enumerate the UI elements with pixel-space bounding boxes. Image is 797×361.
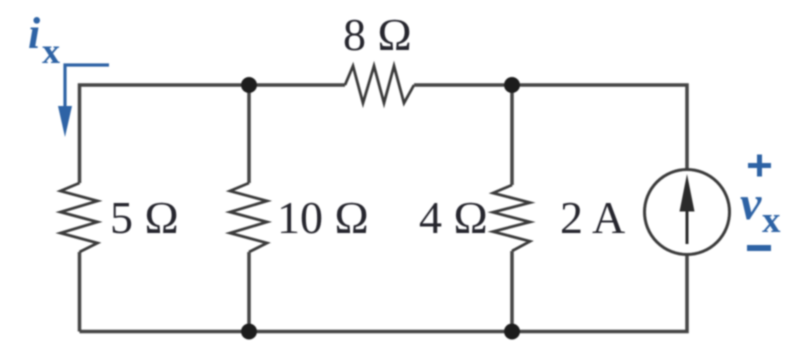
- node C junction dot (bottom, branch 2): [241, 324, 257, 340]
- svg-text:i: i: [28, 9, 41, 58]
- node A junction dot (top, branch 2): [241, 77, 257, 93]
- wire branch 2 lower: [247, 252, 251, 332]
- node B junction dot (top, branch 3): [504, 77, 520, 93]
- wire left: below 5-ohm resistor: [78, 252, 82, 332]
- current source arrow (pointing up): [686, 203, 689, 244]
- wire branch 3 upper: [510, 85, 514, 185]
- svg-text:v: v: [740, 177, 762, 230]
- svg-text:5 Ω: 5 Ω: [110, 192, 179, 243]
- node D junction dot (bottom, branch 3): [504, 324, 520, 340]
- svg-text:8 Ω: 8 Ω: [343, 9, 412, 60]
- label plus sign of vx: [748, 163, 771, 168]
- resistor 10 ohm (second branch, vertical): [230, 183, 267, 252]
- wire top-left: top rail from left corner to 8-ohm resistor: [80, 85, 346, 183]
- svg-text:2 A: 2 A: [560, 192, 625, 243]
- wire right-bottom: from current source to bottom-right corner: [80, 254, 688, 332]
- resistor 4 ohm (third branch, vertical): [493, 185, 530, 251]
- current direction arrow ix (blue, down along left wire): [65, 65, 109, 110]
- wire branch 2 upper: [247, 85, 251, 183]
- resistor 8 ohm (horizontal, top rail): [345, 66, 414, 103]
- svg-text:x: x: [42, 31, 60, 71]
- svg-text:10 Ω: 10 Ω: [277, 192, 369, 243]
- wire branch 3 lower: [510, 251, 514, 332]
- resistor 5 ohm (left branch, vertical): [61, 183, 98, 252]
- current source I1 circle: [645, 170, 730, 255]
- svg-text:4 Ω: 4 Ω: [419, 192, 488, 243]
- label minus sign of vx: [747, 245, 771, 251]
- svg-text:x: x: [762, 200, 781, 241]
- wire top-right: from 8-ohm resistor to top-right corner and down to current source: [414, 85, 687, 170]
